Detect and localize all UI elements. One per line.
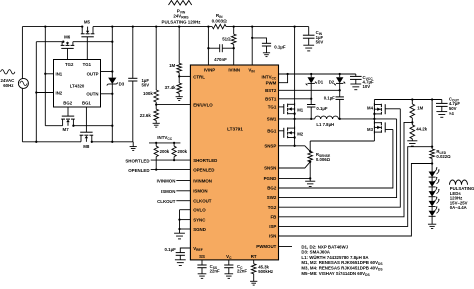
capacitor 1uF 50V bridge [128, 78, 137, 81]
junction D2 anode [339, 73, 341, 75]
svg-text:TG2: TG2 [268, 205, 277, 210]
wire PVIN down to 100k [155, 27, 157, 90]
svg-text:PGND: PGND [264, 176, 277, 181]
svg-text:D1, D2: NXP BAT46WJ: D1, D2: NXP BAT46WJ [301, 244, 348, 249]
wire OPENLED [128, 168, 190, 173]
svg-text:ISMON: ISMON [193, 189, 207, 194]
wire D2 to BST2 cap [339, 83, 341, 97]
svg-text:EN/UVLO: EN/UVLO [193, 103, 213, 108]
wire M1 drain-source bar [294, 104, 296, 119]
diode D1 label [318, 80, 324, 85]
junction SHORTLED 200k [173, 159, 175, 161]
junction EN divider [155, 103, 157, 105]
node INTVCC pullup rail [149, 135, 180, 143]
svg-text:44.2k: 44.2k [416, 127, 427, 132]
resistor 100k [154, 90, 159, 102]
wire RT [253, 260, 255, 264]
svg-text:SW1: SW1 [267, 117, 277, 122]
LT3791 top pin labels [204, 68, 255, 74]
wire VOUT to RLED [431, 100, 433, 150]
capacitor 470nF [220, 44, 223, 52]
junction dots bridge section [35, 41, 235, 143]
svg-text:37.4k: 37.4k [165, 85, 177, 90]
wire PVIN down to 1M [178, 27, 180, 64]
ac source symbol [18, 78, 28, 88]
resistor 51ohm [231, 34, 236, 44]
wire TG2 [279, 109, 401, 207]
svg-text:CLKOUT: CLKOUT [193, 199, 212, 204]
LT3791 right pin labels [256, 75, 277, 250]
svg-text:SW2: SW2 [267, 195, 277, 200]
wire OUTP [101, 71, 113, 73]
capacitor CIN 1uF 50V [303, 27, 315, 39]
ground SGND [174, 233, 185, 239]
transistor M4 label [367, 106, 374, 111]
diode D3 label [119, 81, 125, 86]
transistor M7 [61, 116, 75, 126]
svg-text:L1 7.8µH: L1 7.8µH [316, 122, 334, 127]
ground PGND [305, 181, 315, 186]
transistor M2 label [297, 131, 304, 136]
svg-text:1M: 1M [169, 63, 175, 68]
svg-text:M1: M1 [297, 108, 304, 113]
svg-text:200k: 200k [178, 149, 188, 154]
junction dots 200k top [155, 142, 175, 144]
svg-text:500kHz: 500kHz [258, 269, 273, 274]
capacitor CIN labels [316, 30, 324, 45]
svg-text:CTRL: CTRL [193, 74, 205, 79]
wire PWMOUT stub [279, 246, 293, 248]
ground 0.1uF VIN [263, 46, 270, 57]
svg-text:LT4320: LT4320 [70, 84, 85, 89]
transistor M5 label [84, 19, 91, 24]
LT3791 left pin labels [193, 74, 217, 251]
svg-text:IN1: IN1 [56, 72, 63, 77]
resistor RT labels [258, 264, 273, 274]
notes component table [301, 244, 383, 276]
wire SW1 [279, 118, 315, 120]
resistor 37.4k [177, 83, 182, 93]
transistor M1 [284, 103, 295, 115]
ground CC [224, 268, 233, 279]
ground 37.4k [176, 93, 183, 100]
wire OUTN [101, 93, 113, 95]
ground bridge output [130, 142, 137, 151]
wire CTRL [179, 75, 190, 77]
wire D3 to VOUTN rail [111, 84, 113, 142]
wire AC1 to M7 [45, 125, 62, 127]
wire AC2 horizontal [36, 41, 62, 43]
svg-text:D3: D3 [119, 81, 125, 86]
resistor 200k left [154, 143, 158, 170]
wire M2 drain-source bar [294, 119, 296, 146]
svg-text:VIN: VIN [248, 68, 255, 74]
svg-text:M8: M8 [83, 144, 90, 149]
capacitor COUT 4.7uF 50V x4 [436, 100, 448, 107]
junction D1 anode [310, 73, 312, 75]
resistor 200k right label [178, 149, 188, 154]
ground VREF cap [175, 255, 186, 265]
wire 51ohm top [233, 27, 235, 35]
wire M5 gate to TG1 [86, 37, 88, 60]
wire OVLO/SYNC/SGND tie [179, 210, 181, 234]
svg-text:24VRMS: 24VRMS [173, 14, 189, 20]
svg-text:SHORTLED: SHORTLED [125, 158, 149, 163]
wire PVIN to M1 drain [294, 27, 296, 105]
svg-text:FB: FB [270, 214, 276, 219]
resistor 1M output label [417, 106, 423, 111]
svg-text:200k: 200k [160, 149, 170, 154]
resistor RIN labels [212, 13, 227, 23]
wire VIN vertical [251, 27, 253, 65]
resistor 200k left label [160, 149, 170, 154]
svg-text:TG2: TG2 [65, 62, 74, 67]
resistor 1M input label [169, 63, 175, 68]
wire M7 out [73, 125, 112, 127]
LED string labels [450, 186, 474, 210]
junction M4 body tie [373, 113, 375, 115]
resistor 37.4k label [165, 85, 177, 90]
wire BST1 [279, 98, 312, 100]
svg-text:BG2: BG2 [267, 186, 277, 191]
ground CSS [198, 268, 207, 279]
node PVIN labels [162, 8, 202, 24]
wire LED string to ground [431, 216, 433, 224]
svg-text:VREF: VREF [193, 246, 203, 252]
wire BG1 [279, 130, 284, 132]
svg-text:INTVCC: INTVCC [262, 75, 277, 81]
diode D2 label [329, 80, 335, 85]
svg-text:LT3791: LT3791 [227, 127, 243, 132]
wire AC1 top rail segment [22, 26, 82, 28]
wire M6 out to PVIN [73, 41, 112, 43]
svg-text:OUTP: OUTP [87, 71, 99, 76]
wire SNSP [279, 146, 311, 152]
wire PVIN rail after RIN [226, 26, 309, 28]
wire 470nF right [222, 47, 233, 49]
svg-text:22.6k: 22.6k [140, 113, 152, 118]
junction FB divider [411, 121, 413, 123]
wire M6 gate to TG2 [67, 48, 69, 59]
svg-text:D3: SMAJ60A: D3: SMAJ60A [301, 250, 330, 255]
wire SHORTLED [125, 158, 190, 163]
ac source wire bottom [21, 88, 23, 141]
svg-text:0.1µF: 0.1µF [316, 106, 327, 111]
wire bottom AC2 rail [22, 141, 81, 143]
pulsating LED waveform symbol [450, 180, 468, 185]
resistor RT 45.3k [251, 264, 256, 274]
svg-text:BG2: BG2 [63, 101, 72, 106]
wire 100k to 22.6k [155, 102, 157, 109]
resistor RSENSE 0.006ohm [308, 151, 313, 161]
wire BST1 cap to SW1 [310, 107, 312, 119]
resistor 1M input divider [177, 63, 182, 72]
inductor L1 7.8uH [315, 116, 339, 119]
junction M1 body tie [293, 113, 295, 115]
wire ISP [279, 147, 433, 227]
svg-text:IVINP: IVINP [204, 68, 216, 73]
svg-text:OPENLED: OPENLED [193, 168, 214, 173]
svg-text:22nF: 22nF [237, 269, 247, 274]
wire RSENSE to PGND [309, 162, 311, 181]
resistor 44.2k [410, 125, 415, 139]
wire ISMON stub [161, 189, 190, 194]
svg-text:L1: WÜRTH 744325780 7.8µH 8A: L1: WÜRTH 744325780 7.8µH 8A [301, 255, 369, 260]
LT4320 pin labels [56, 62, 99, 106]
junction SNSP RSENSE [309, 150, 311, 152]
transistor M7 label [63, 127, 70, 132]
svg-text:0.1µF: 0.1µF [274, 44, 286, 49]
svg-text:TG1: TG1 [268, 105, 277, 110]
svg-text:10V: 10V [363, 84, 371, 89]
svg-text:0.003Ω: 0.003Ω [212, 19, 227, 24]
transistor M6 [61, 42, 75, 49]
resistor 200k right [172, 143, 176, 160]
wire SYNC [180, 219, 191, 221]
svg-text:×4: ×4 [449, 111, 455, 116]
ground 44.2k [407, 139, 417, 146]
wire ISN [279, 164, 433, 237]
junction ISN RLED [431, 162, 433, 164]
svg-text:SHORTLED: SHORTLED [193, 158, 217, 163]
junction BST1 [310, 98, 312, 100]
wire SS [201, 260, 203, 265]
transistor M3 label [367, 127, 374, 132]
svg-text:SS: SS [199, 254, 205, 259]
svg-text:50V: 50V [142, 83, 150, 88]
diode D1 BAT46WJ [306, 74, 316, 85]
capacitor CSS 22nF [197, 264, 220, 274]
wire PVIN rail segment [93, 26, 212, 28]
wire IVINN vertical [233, 44, 235, 65]
wire TG2 gate feed [385, 108, 400, 110]
wire OVLO [180, 209, 191, 211]
transistor M4 [374, 103, 385, 115]
svg-text:0.006Ω: 0.006Ω [316, 157, 331, 162]
capacitor 0.1uF VIN label [274, 44, 286, 49]
capacitor CVCC 4.7uF 10V [350, 74, 362, 79]
junction RLED VOUT [431, 98, 433, 100]
wire EN/UVLO [156, 104, 190, 106]
wire PGND [279, 177, 311, 179]
capacitor 0.1uF BST1 [307, 105, 328, 112]
wire IN2 [36, 92, 53, 94]
ground RT [250, 274, 257, 285]
svg-text:0.022Ω: 0.022Ω [436, 154, 451, 159]
transistor M8 label [83, 144, 90, 149]
junction M2 body tie [293, 136, 295, 138]
wire SGND [180, 228, 191, 230]
wire M3 drain-source bar [373, 119, 375, 141]
junction BST2 [339, 89, 341, 91]
svg-text:D2: D2 [329, 80, 335, 85]
svg-text:60Hz: 60Hz [3, 83, 14, 88]
svg-text:ISMON: ISMON [161, 189, 175, 194]
wire VC [228, 260, 230, 265]
svg-text:PULSATING 120Hz: PULSATING 120Hz [162, 19, 202, 24]
transistor M1 label [297, 108, 304, 113]
wire IVINMON stub [157, 179, 191, 184]
wire bottom VOUTN rail [92, 141, 133, 143]
svg-text:M4: M4 [367, 106, 374, 111]
svg-text:SNSP: SNSP [264, 143, 276, 148]
pulsating input waveform symbol [169, 1, 192, 6]
ground CVCC [350, 79, 361, 89]
wire INTVCC [279, 73, 356, 75]
capacitor 470nF label [214, 57, 227, 62]
diode D2 BAT46WJ [335, 74, 345, 85]
junction SYNC [178, 218, 180, 220]
svg-text:51Ω: 51Ω [222, 36, 231, 41]
wire SNSN [279, 162, 311, 168]
wire PVIN down to D3 [111, 27, 113, 78]
svg-text:M6: M6 [64, 35, 71, 40]
junction SNSN RSENSE [309, 161, 311, 163]
ground 22.6k [153, 120, 160, 127]
diode D3 SMAJ60A [107, 78, 118, 86]
svg-text:100k: 100k [143, 91, 153, 96]
wire BST2 [279, 89, 340, 91]
capacitor CVCC labels [363, 75, 374, 89]
wire VIN bypass branch [252, 38, 266, 43]
transistor M5 [81, 27, 95, 37]
wire PVIN down to C bypass [132, 27, 134, 79]
resistor RLED 0.022ohm [430, 149, 435, 159]
wire SW2 pin [279, 119, 397, 198]
capacitor 0.1uF VREF [164, 247, 184, 255]
resistor RIN 0.003ohm [212, 24, 226, 28]
transistor M6 label [64, 35, 71, 40]
junction PGND [309, 177, 311, 179]
svg-text:470nF: 470nF [214, 57, 227, 62]
wire M7 gate to BG2 [67, 107, 69, 116]
svg-text:IVINN: IVINN [228, 68, 240, 73]
wire BST2 cap to SW2 [339, 99, 341, 119]
svg-text:ISN: ISN [269, 234, 276, 239]
svg-text:M3: M3 [367, 127, 374, 132]
bridge controller U2 LT4320 box [54, 60, 101, 108]
svg-text:TG1: TG1 [83, 62, 92, 67]
ground CIN [303, 38, 314, 51]
resistor RSENSE labels [316, 152, 331, 162]
svg-text:OPENLED: OPENLED [128, 168, 149, 173]
junction BST1 cap SW1 [310, 118, 312, 120]
svg-text:BST1: BST1 [265, 97, 277, 102]
resistor RLED labels [436, 149, 451, 159]
wire IVINP vertical [207, 27, 209, 65]
svg-text:PWMOUT: PWMOUT [256, 244, 276, 249]
inductor L1 label [316, 122, 334, 127]
svg-text:RT: RT [251, 254, 257, 259]
junction CTRL divider [178, 75, 180, 77]
svg-text:IN2: IN2 [56, 90, 63, 95]
svg-text:IVINMON: IVINMON [193, 178, 212, 183]
svg-text:0.1µF: 0.1µF [324, 96, 335, 101]
svg-text:OVLO: OVLO [193, 208, 206, 213]
svg-text:SGND: SGND [193, 227, 206, 232]
svg-text:SYNC: SYNC [193, 218, 206, 223]
wire C bypass down [132, 81, 134, 142]
svg-text:BG1: BG1 [267, 129, 277, 134]
resistor 1M output divider [410, 104, 415, 118]
wire AC2 vertical [35, 42, 37, 142]
capacitor 0.1uF VIN [262, 43, 271, 46]
resistor 22.6k label [140, 113, 152, 118]
wire 1M to 37.4k [178, 73, 180, 83]
svg-text:50V: 50V [316, 40, 324, 45]
resistor 44.2k label [416, 127, 427, 132]
junction OPENLED 200k [155, 168, 157, 170]
transistor M2 [284, 127, 295, 139]
junction ISP RLED [431, 146, 433, 148]
resistor 100k label [143, 91, 153, 96]
ac source labels [1, 70, 16, 88]
transistor M8 [80, 132, 94, 142]
wire RLED to LEDs [431, 159, 433, 172]
LT3791 name [227, 127, 243, 132]
svg-text:VC: VC [226, 254, 232, 260]
svg-text:22nF: 22nF [210, 269, 220, 274]
junction dots top rail [44, 25, 296, 27]
junction PWM tie [286, 73, 288, 75]
ground COUT [436, 106, 447, 117]
svg-text:PWM: PWM [266, 80, 277, 85]
junction L1 BST2cap [339, 118, 341, 120]
wire CLKOUT stub [157, 199, 190, 204]
wire M3 source down to RSENSE [309, 141, 311, 151]
wire VOUT divider 1M top [411, 100, 413, 105]
capacitor 1uF 50V labels [142, 78, 150, 88]
svg-text:1M: 1M [417, 106, 423, 111]
junction 1M VOUT [411, 98, 413, 100]
wire VOUT rail [374, 99, 441, 101]
svg-text:M5: M5 [84, 19, 91, 24]
svg-text:CLKOUT: CLKOUT [157, 199, 176, 204]
wire BG2 [279, 130, 393, 189]
svg-text:BG1: BG1 [82, 101, 91, 106]
ac source 24VAC wire top [21, 27, 23, 79]
svg-text:INTVCC: INTVCC [157, 135, 172, 141]
junction M4 source SW2 [373, 118, 375, 120]
capacitor CC 22nF [224, 264, 247, 274]
svg-text:D1: D1 [318, 80, 324, 85]
junction M1 source SW1 [293, 118, 295, 120]
capacitor COUT labels [449, 96, 460, 115]
resistor 22.6k [154, 109, 159, 120]
wire PWM tie [279, 74, 288, 83]
svg-text:M7: M7 [63, 127, 70, 132]
svg-text:M2: M2 [297, 131, 304, 136]
ground LED string [428, 224, 436, 228]
junction VIN bypass [251, 37, 253, 39]
junction M2 source SNSP [293, 145, 295, 147]
LT3791 bottom pin labels [199, 254, 257, 260]
op-amp U1 LT3791 box [190, 65, 278, 260]
wire TG1 [279, 106, 284, 108]
wire M3 source to SNSP [310, 140, 374, 142]
wire IN1 [45, 73, 53, 75]
svg-text:0.1µF: 0.1µF [164, 247, 176, 252]
svg-text:BST2: BST2 [265, 88, 277, 93]
wire AC1 vertical [44, 27, 46, 126]
LED string pulsating LEDs [429, 167, 440, 216]
wire D1 to BST1 cap [310, 83, 312, 104]
svg-text:M5–M8: VISHAY Si7414DN 60VDS: M5–M8: VISHAY Si7414DN 60VDS [301, 271, 370, 277]
capacitor 0.1uF BST2 [324, 96, 344, 101]
wire M4 drain-source bar [373, 100, 375, 119]
junction SGND [178, 228, 180, 230]
resistor 51ohm label [222, 36, 231, 41]
